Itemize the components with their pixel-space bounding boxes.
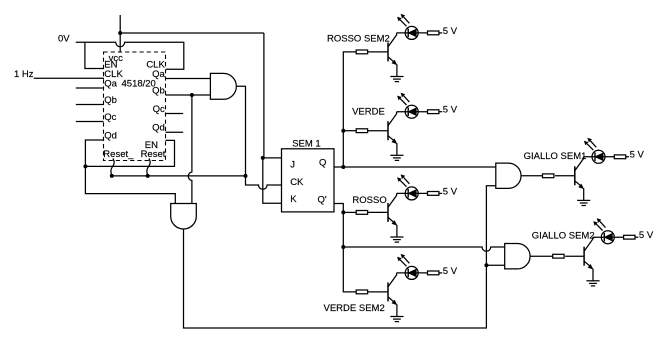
resistor R3a (base, ROSSO) [356,211,367,215]
transistor Q2 (VERDE) [388,112,397,156]
svg-text:GIALLO SEM1: GIALLO SEM1 [524,151,587,162]
junction Q' to U5 wire [341,245,345,249]
svg-text:ROSSO: ROSSO [352,195,386,206]
wire 0V rail with hop over vcc stub [76,42,184,69]
resistor R4a (base, VERDE SEM2) [356,290,367,294]
wire base resistor to Q6 [565,255,584,257]
wire base resistor to Q5 [555,175,575,177]
wire collector to 5V resistor through LED [397,32,429,34]
svg-text:5 V: 5 V [630,150,645,161]
LED D2 (VERDE) [405,105,418,118]
wire U5 output to Q6 base [530,255,553,257]
junction U5 input2 branch [484,263,488,267]
wire U3 output to bottom rail up to U4 input 2 [184,186,496,328]
ground (VERDE SEM2 emitter) [390,317,403,322]
wire 0V branch to EN of counter A [85,42,104,68]
wire reset rail to U2 output column [112,175,246,177]
svg-text:VERDE SEM2: VERDE SEM2 [324,303,385,314]
wire U2 output to CK of SEM1 with hop over J/K tie [236,86,281,189]
wire 5V resistor to label [439,272,442,274]
wire collector to 5V resistor through LED [397,272,429,274]
ground (ROSSO emitter) [390,237,403,242]
wire 5V resistor to label [626,156,629,158]
svg-text:VERDE: VERDE [352,106,385,117]
svg-text:Qc: Qc [104,112,116,123]
wire Qb (counter B) to AND U2 input 2 [166,94,211,96]
resistor R5a (base, GIALLO SEM1) [543,174,554,178]
wire Q output to U4 input 1 [334,166,496,168]
svg-text:Qb: Qb [104,95,117,106]
resistor R2a (base, VERDE) [356,129,367,133]
wire collector to 5V resistor through LED [397,111,429,113]
counter U1 4518/20 dashed outline [104,52,166,161]
wire Q' output down [334,204,356,292]
transistor Q5 (GIALLO SEM1) [575,157,584,201]
junction reset A on rail [110,174,114,178]
svg-text:Reset: Reset [141,149,166,160]
junction VERDE branch [341,129,345,133]
LED D6 (GIALLO SEM2) [601,231,614,244]
svg-text:Qb: Qb [152,86,165,97]
svg-text:5 V: 5 V [443,266,458,277]
LED D3 (ROSSO) [405,187,418,200]
resistor R6b (5V, GIALLO SEM2) [624,235,635,239]
wire Q column up to ROSSO SEM2 base [343,52,356,167]
wire Qa stub (counter A) [76,87,104,89]
wire Qb branch down to AND U3 with hop over reset rail [188,95,192,204]
resistor R1a (base, ROSSO SEM2) [356,50,367,54]
LED D5 emission arrows [584,138,596,150]
and-gate U3 (down-pointing) [171,204,197,229]
svg-text:J: J [290,160,295,171]
wire VERDE base branch [343,130,356,132]
ground (GIALLO SEM1 emitter) [577,200,590,205]
wire Qc stub (counter B) [166,113,184,115]
junction on vcc stub [118,31,122,35]
svg-text:0V: 0V [58,33,70,44]
junction Q node [341,165,345,169]
svg-text:5 V: 5 V [639,230,654,241]
wire J input [263,157,282,159]
svg-text:5 V: 5 V [443,26,458,37]
and-gate U4 (GIALLO SEM1) [496,163,521,188]
svg-text:ROSSO SEM2: ROSSO SEM2 [327,33,390,44]
svg-text:Q: Q [319,158,326,169]
svg-text:CK: CK [290,177,304,188]
wire Q' to U5 input 1 with hop [343,247,504,251]
LED D3 emission arrows [397,174,409,186]
wire Qb stub (counter A) [76,104,104,106]
LED D1 emission arrows [397,14,409,26]
flip-flop SEM1 box [282,149,335,212]
wire Reset squiggle (counter B) [147,159,150,176]
junction rail / U2 output [244,174,248,178]
resistor R4b (5V, VERDE SEM2) [428,271,439,275]
wire collector to 5V resistor through LED [593,236,625,238]
wire collector to 5V resistor through LED [397,192,429,194]
LED D6 emission arrows [593,218,605,230]
svg-text:K: K [290,194,297,205]
wire vcc junction to J/K column [120,32,264,34]
wire base resistor to Q4 [368,291,388,293]
LED D5 (GIALLO SEM1) [592,150,605,163]
LED D1 (ROSSO SEM2) [405,26,418,39]
wire 5V resistor to label [439,32,442,34]
junction Qb branch [190,93,194,97]
LED D2 emission arrows [397,93,409,105]
wire J/K tie down to K [263,158,282,203]
resistor R1b (5V, ROSSO SEM2) [428,31,439,35]
svg-text:Qa: Qa [104,79,117,90]
wire 5V resistor to label [439,111,442,113]
wire 5V resistor to label [439,192,442,194]
svg-text:5 V: 5 V [443,105,458,116]
junction ROSSO branch [341,210,345,214]
wire Qc stub (counter A) [76,121,104,123]
junction J/K tie [261,156,265,160]
ground (VERDE emitter) [390,155,403,160]
junction Qd-A / EN-B tie [83,164,87,168]
LED D4 emission arrows [397,254,409,266]
wire down to J input [263,33,265,158]
wire Reset squiggle (counter A) [111,159,114,176]
resistor R2b (5V, VERDE) [428,110,439,114]
wire ROSSO base branch [343,211,356,213]
wire base resistor to Q2 [368,130,388,132]
svg-text:SEM 1: SEM 1 [292,138,321,149]
node VCC stub wire [119,15,121,52]
svg-text:4518/20: 4518/20 [122,79,156,90]
wire EN (counter B) bracket to Qd-A line [85,140,174,166]
wire Qd (counter A) down to AND gate U3 input [85,140,175,204]
transistor Q1 (ROSSO SEM2) [388,33,397,77]
wire 5V resistor to label [635,236,638,238]
resistor R6a (base, GIALLO SEM2) [553,254,564,258]
resistor R3b (5V, ROSSO) [428,192,439,196]
svg-text:Qd: Qd [104,131,117,142]
transistor Q3 (ROSSO) [388,193,397,237]
svg-text:Qd: Qd [152,123,165,134]
wire 1 Hz to CLK of counter A [34,77,104,79]
svg-text:Qa: Qa [152,69,165,80]
svg-text:5 V: 5 V [443,186,458,197]
ground (GIALLO SEM2 emitter) [586,281,599,286]
svg-text:Reset_: Reset_ [103,149,134,160]
wire Qa (counter B) to AND U2 input 1 [166,78,211,80]
svg-text:1 Hz: 1 Hz [14,69,34,80]
and-gate U5 (GIALLO SEM2) [505,244,530,269]
wire to U5 input 2 [486,264,504,266]
ground (ROSSO SEM2 emitter) [390,77,403,82]
and-gate U2 (Qa.Qb to CK) [210,73,236,99]
wire base resistor to Q1 [368,51,388,53]
svg-text:Q': Q' [318,194,327,205]
transistor Q6 (GIALLO SEM2) [584,237,593,281]
svg-text:Qc: Qc [153,104,165,115]
junction reset B on rail [146,174,150,178]
LED D4 (VERDE SEM2) [405,266,418,279]
wire U4 output to Q5 base [521,175,542,177]
wire collector to 5V resistor through LED [583,156,615,158]
transistor Q4 (VERDE SEM2) [388,273,397,317]
resistor R5b (5V, GIALLO SEM1) [614,155,625,159]
svg-text:GIALLO SEM2: GIALLO SEM2 [532,230,595,241]
wire base resistor to Q3 [368,211,388,213]
wire Qd stub (counter B) [166,131,184,133]
